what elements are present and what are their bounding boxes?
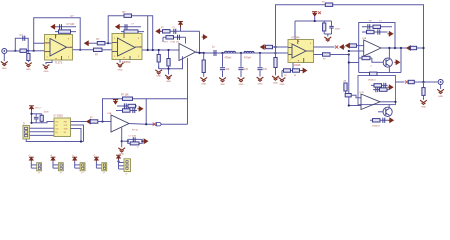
power flag [388,32,393,36]
resistor R8 (shunt) [158,50,160,55]
wire [32,122,42,124]
capacitor C5 [177,35,179,40]
wire [266,46,288,48]
capacitor C8 (shunt) [240,53,242,67]
connector J8 [124,159,131,172]
svg-text:GND: GND [438,96,443,98]
connector J1 (input) [2,49,7,54]
power flag [388,85,393,89]
power flag P4 [94,157,99,161]
wire bottom [359,72,401,74]
node N [121,140,123,142]
digital IC U7 [54,118,71,137]
wire [196,52,204,53]
capacitor C18 [132,108,134,113]
resistor R23 [359,57,362,59]
no-connect X [405,80,408,83]
no-connect X [335,45,338,48]
wire (U5 loop) [359,23,395,73]
svg-text:U?A: U?A [107,112,112,115]
diode D1 (shunt) [168,50,170,59]
wire [346,94,349,96]
connector J3 [23,126,30,140]
wire [30,134,55,136]
ground [275,68,277,76]
feedback row wire [159,30,199,32]
svg-text:LM318: LM318 [293,64,301,67]
svg-text:GND: GND [201,84,206,86]
node B [33,50,35,52]
resistor R4 [94,48,103,51]
wire top rail [276,5,424,82]
wire [52,161,54,168]
wire [400,48,402,73]
resistor R32 [40,115,43,121]
connector J7 [102,163,107,171]
resistor R16 [284,69,291,72]
svg-text:J?: J? [125,174,127,176]
wire [282,70,302,72]
wire [95,161,97,168]
svg-text:GND: GND [239,84,244,86]
power flag V+ stage1 [178,22,183,28]
node K [422,47,424,49]
wire [180,28,182,32]
wire [388,67,390,73]
wire (C1 bypass loop) [15,38,28,51]
svg-text:100N: 100N [44,112,49,114]
wire [32,113,42,115]
resistor R11 (shunt) [203,53,205,60]
capacitor C13 [371,84,388,86]
op-amp U4 [288,40,314,63]
capacitor C7 (shunt) [222,53,224,67]
transistor Q1 [383,58,392,67]
wire [281,71,283,78]
resistor R10 [166,36,174,39]
resistor R6 [124,14,132,17]
resistor R12 (shunt) [275,53,277,58]
wire [324,33,331,35]
wire [71,125,84,142]
wire [147,16,149,50]
connector J6 [80,163,85,171]
svg-text:470uH: 470uH [244,57,251,59]
power flag [388,118,393,122]
node L [422,81,424,83]
svg-text:U? DS18: U? DS18 [54,116,64,118]
ground [46,60,52,64]
power flag VCC1 [51,25,56,29]
resistor R34 [123,97,133,100]
wire out [380,101,396,103]
parallel RC loop [128,139,142,143]
wire long tail [187,58,189,124]
node H [259,52,261,54]
ground [119,60,121,63]
power flag VCC3 (down) [312,12,317,16]
capacitor C19 [132,137,134,141]
node input junction A [14,50,16,52]
op-amp U6 (discrete) [361,94,380,110]
power flag P1 [29,157,34,161]
svg-text:RST: RST [64,121,67,123]
node E [198,52,200,54]
svg-text:GND: GND [44,71,49,73]
capacitor C16 [35,114,37,117]
power flag VCC2 [116,25,121,29]
svg-text:OUT: OUT [64,125,68,127]
resistor R5 [97,42,105,45]
wire (U2 feedback loop) [108,16,153,50]
wire [378,111,383,113]
svg-text:U?A: U?A [171,41,176,44]
node C [107,42,109,44]
power flag +5V [29,106,34,111]
svg-text:GND: GND [26,69,31,71]
svg-text:U?A: U?A [362,37,367,40]
port OUT [156,123,161,126]
node U1 out [79,49,81,51]
resistor R29 [370,119,388,121]
connector J5 [58,163,63,171]
node J [348,53,350,55]
wire out [129,123,146,126]
svg-text:GND: GND [2,68,7,70]
svg-text:J?: J? [81,173,83,175]
wire [71,121,87,123]
wire [142,49,179,51]
wire [26,139,83,142]
connector J2 (output) [438,80,443,85]
resistor R18 [323,53,331,56]
svg-text:+5: +5 [93,155,95,157]
svg-text:+5: +5 [137,147,139,149]
wire [122,140,128,142]
wire [348,55,350,106]
svg-text:GND: GND [258,84,263,86]
capacitor C1 [22,36,24,41]
inductor L1 [225,51,236,52]
wire [372,58,383,62]
capacitor C3 [121,26,141,28]
capacitor C14 [375,87,377,92]
resistor R3 [55,31,76,33]
resistor R27 [374,84,382,87]
power flag VREF1 [85,41,90,45]
capacitor C15 [382,118,384,123]
svg-text:GND: GND [280,84,285,86]
resistor R33 [90,120,98,123]
op-amp U8 (discrete) [111,115,129,132]
wire [414,81,437,83]
power flag [407,46,412,50]
wire [105,42,112,44]
resistor R36 [116,110,137,112]
svg-text:GND: GND [220,84,225,86]
ground [423,95,425,99]
wire [71,129,82,142]
wire [158,67,160,69]
inductor L2 [244,51,254,52]
resistor R35 [128,104,136,107]
svg-text:+5: +5 [28,155,30,157]
ground [219,78,226,82]
svg-text:C? 10N: C? 10N [129,135,137,137]
wire [314,54,323,56]
svg-text:GND: GND [166,81,171,83]
power flag P3 [72,157,77,161]
node G [240,52,242,54]
wire [73,49,94,51]
power flag [394,60,399,64]
svg-text:+5V C?: +5V C? [34,108,42,110]
resistor R26 [345,94,351,97]
wire [349,62,359,64]
wire [31,111,33,123]
wire out [381,47,424,49]
resistor R24 [370,72,378,75]
wire (U8 loop) [103,99,147,125]
op-amp U5 (discrete) [364,40,381,56]
svg-text:U?B: U?B [360,92,365,94]
power flag P2 [51,157,56,161]
wire out [146,123,187,125]
wire [292,63,294,71]
svg-text:J?: J? [60,173,62,175]
wire (U6 loop) [358,76,396,105]
wire [276,52,289,54]
svg-text:C? 10N: C? 10N [67,24,75,26]
resistor R13 [266,45,273,48]
svg-text:2N4403: 2N4403 [372,126,380,128]
node I [274,52,276,54]
wire [349,105,361,107]
resistor R15 [323,21,325,23]
wire [121,128,123,148]
ground [440,85,442,89]
transistor Q2 [383,107,392,116]
svg-text:GND: GND [421,107,426,109]
wire main ladder [200,52,289,54]
wire (fb to output) [199,31,201,53]
wire (U1 feedback loop) [34,18,80,50]
capacitor C9 (shunt) [259,53,261,67]
capacitor C10 [331,21,333,26]
resistor R1 [20,49,26,52]
wire [351,95,361,98]
node M [101,120,103,122]
wire [295,20,332,22]
svg-text:R? 1K: R? 1K [132,130,139,132]
power flag [87,119,92,123]
op-amp U3 (discrete) [179,44,196,61]
svg-text:J?: J? [38,173,40,175]
resistor R28 [373,89,389,91]
resistor R7 [121,31,144,33]
node F [221,52,223,54]
capacitor C17 [117,105,137,107]
wire [357,45,364,47]
power flag VFB [156,29,161,33]
resistor R30 [408,80,414,83]
power flag [301,68,306,72]
wire [30,161,32,168]
ground [279,78,286,82]
connector J4 [37,163,42,171]
resistor R31 (shunt) [423,82,425,88]
ground [3,54,5,62]
resistor R25 [344,83,347,91]
feedback row2 wire [163,36,186,38]
wire [314,46,335,48]
svg-text:+5: +5 [72,155,74,157]
wire [146,98,187,100]
wire out tap [396,81,405,83]
wire [314,16,316,21]
power flag V- (down) [113,100,118,104]
resistor R17 [293,69,300,72]
ground [238,78,245,82]
wire [30,131,55,133]
svg-text:470uH: 470uH [225,57,232,59]
svg-text:TL072: TL072 [55,62,63,65]
svg-text:U? OPA: U? OPA [291,37,300,40]
capacitor C12 [377,29,379,34]
wire bias L [159,56,183,68]
power flag bias [261,45,266,49]
wire [118,160,120,169]
resistor R20 [373,25,381,28]
wire [12,50,45,52]
wire [388,48,390,58]
svg-text:2N4401: 2N4401 [368,80,376,82]
op-amp U1 [45,35,73,61]
capacitor C6 (series) [213,50,215,56]
wire [34,43,45,51]
svg-text:GND: GND [273,83,278,85]
node D [147,49,149,51]
resistor R19 [350,44,357,47]
ground [203,73,205,77]
wire [102,49,112,51]
resistor R9 [163,30,171,33]
wire [349,50,364,52]
op-amp U2 [112,34,142,60]
power flag [340,45,345,49]
capacitor C4 [173,29,175,34]
wire [30,127,55,129]
ground [27,61,29,63]
svg-text:+5: +5 [50,155,52,157]
wire [98,121,111,123]
ground [158,62,160,69]
resistor R22 [410,46,416,49]
svg-text:100N: 100N [335,29,341,31]
capacitor C2 [56,26,76,28]
power flag [137,107,142,111]
power flag [142,139,147,143]
ground [118,148,125,152]
wire [388,105,390,108]
wire [74,161,76,168]
svg-text:GND: GND [156,76,161,78]
no-connect X [153,123,156,126]
power flag right [202,35,207,39]
resistor R2 (shunt) [27,51,29,54]
wire [330,54,349,56]
svg-text:R? 10K: R? 10K [121,94,129,96]
resistor R37 [130,142,139,145]
ground [257,77,264,81]
wire [42,122,54,123]
ground [168,66,170,75]
resistor R14 (rail) [325,3,332,6]
ground [324,37,331,41]
power flag P5 [116,155,121,159]
svg-text:J?: J? [103,173,105,175]
wire [90,42,97,44]
svg-text:GND: GND [118,70,123,72]
power flag in [346,44,351,48]
resistor R21 [362,31,388,33]
capacitor C11 [362,26,392,28]
